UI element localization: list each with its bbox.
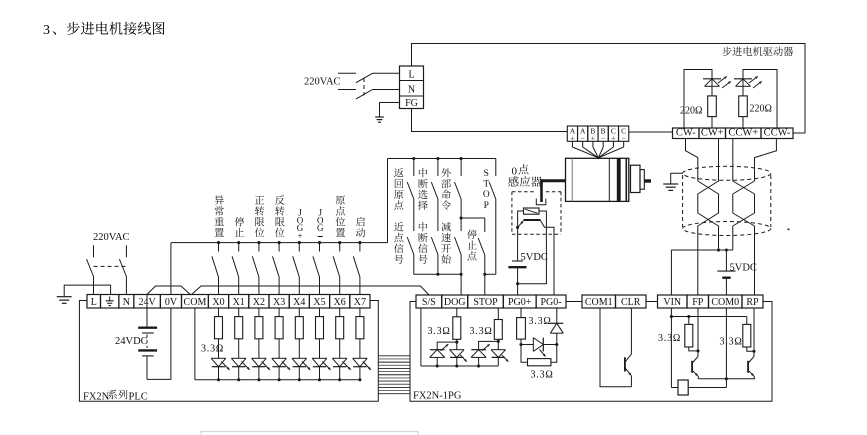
wire R-FP bottom to node	[689, 347, 698, 351]
switch S2b lever	[119, 259, 126, 277]
switch X3 input	[278, 243, 280, 252]
switch 返回原点	[413, 159, 415, 177]
wire to DOG LED1	[437, 342, 457, 350]
switch X5 input	[319, 243, 321, 252]
svg-text:3.3Ω: 3.3Ω	[529, 316, 552, 327]
motor shaft housing right	[631, 165, 641, 192]
wire switch to X2	[258, 277, 260, 295]
battery 24VDC	[146, 295, 148, 327]
label 中断信号	[419, 222, 427, 231]
wire shield to ground	[671, 173, 683, 184]
svg-text:RP: RP	[746, 297, 759, 308]
label 中断选择	[419, 168, 427, 177]
svg-text:+: +	[297, 231, 302, 241]
label 启动	[356, 217, 365, 226]
svg-text:PLC: PLC	[129, 392, 148, 403]
svg-text:L: L	[408, 70, 414, 81]
LED X4	[292, 357, 307, 359]
svg-text:CCW-: CCW-	[764, 127, 791, 138]
switch S2a lever	[87, 259, 94, 277]
wire LED X3 to common	[278, 367, 280, 380]
switch gang dashed link left	[94, 265, 127, 267]
wire diode to node	[556, 333, 558, 344]
motor shaft left	[542, 179, 565, 182]
wire L/N/FG box top to driver	[412, 44, 806, 134]
svg-text:X3: X3	[273, 297, 285, 308]
switch X4 input	[298, 243, 300, 252]
LED X6	[332, 357, 347, 359]
svg-text:24V: 24V	[139, 297, 157, 308]
connector fan wires to motor	[571, 141, 573, 147]
wire LED X1 to common	[238, 367, 240, 380]
node selector top	[436, 157, 439, 160]
svg-text:DOG: DOG	[444, 297, 466, 308]
label 原点位置	[336, 195, 345, 204]
svg-text:G: G	[317, 223, 324, 233]
svg-text:COM1: COM1	[585, 297, 613, 308]
wire CLR down	[630, 308, 632, 354]
wire resistor to LED X0	[218, 339, 220, 359]
wire X5 to resistor	[319, 308, 321, 317]
wire R-RP bottom to node	[747, 347, 754, 351]
wire LED right to battery minus	[518, 211, 547, 284]
wire CCW- to cable	[755, 139, 777, 182]
LED X7	[353, 357, 368, 359]
terminal strip S/S DOG STOP PG0+ PG0-	[416, 295, 442, 308]
wire selector left edge	[387, 159, 389, 243]
wire R2 to CCW+	[742, 117, 744, 128]
svg-text:3.3Ω: 3.3Ω	[428, 326, 451, 337]
switch S1a lever	[356, 73, 373, 82]
wire switch to X3	[278, 277, 280, 295]
wire switch to X0	[218, 277, 220, 295]
node FP	[696, 349, 699, 352]
LED X1	[231, 357, 246, 359]
switch S2a stub	[93, 245, 95, 257]
switch X0 input	[218, 243, 220, 252]
svg-text:3: 3	[43, 23, 50, 38]
wire strip link PG0- to COM1	[566, 301, 582, 303]
svg-text:X4: X4	[293, 297, 305, 308]
wire VIN drop	[670, 250, 672, 295]
wire X1 to resistor	[238, 308, 240, 317]
switch STOP external	[495, 159, 497, 177]
wire X7 to resistor	[359, 308, 361, 317]
transistor FP	[691, 361, 693, 373]
wire resistor to LED X2	[258, 339, 260, 359]
FX2N-1PG enclosure box	[410, 302, 772, 402]
wire switch to X4	[298, 277, 300, 295]
bottom partial box	[201, 432, 418, 435]
switch S1b feed stub	[338, 89, 356, 91]
svg-text:N: N	[123, 297, 130, 308]
ground FG	[375, 116, 384, 118]
switch 外部命令	[460, 159, 462, 177]
battery 5VDC right	[725, 250, 727, 271]
svg-text:−: −	[622, 134, 626, 143]
node bus X3	[278, 241, 281, 244]
node bus X6	[338, 241, 341, 244]
wire 1PG input common bus	[421, 365, 498, 367]
wire earth cell to ground	[64, 285, 110, 297]
svg-text:+: +	[591, 134, 595, 143]
svg-text:0V: 0V	[165, 297, 178, 308]
svg-text:CW+: CW+	[701, 127, 724, 138]
node RP	[752, 350, 755, 353]
switch X6 input	[339, 243, 341, 252]
svg-text:5VDC: 5VDC	[730, 263, 757, 274]
wire switch to X7	[359, 277, 361, 295]
sensor phototransistor emitter to PG0-	[541, 221, 554, 295]
wire battery to 0V	[147, 308, 171, 379]
wire X4 to resistor	[298, 308, 300, 317]
LED X2	[252, 357, 267, 359]
wire FG box bottom to connector	[412, 109, 568, 132]
ribbon cable PLC to 1PG	[378, 355, 410, 357]
svg-text:COM: COM	[184, 297, 207, 308]
svg-text:3.3Ω: 3.3Ω	[720, 337, 743, 348]
svg-text:P: P	[484, 201, 489, 211]
switch S1a feed stub	[338, 72, 356, 74]
wire VIN down	[670, 308, 672, 388]
svg-text:T: T	[483, 180, 489, 190]
svg-text:X7: X7	[354, 297, 366, 308]
wire emitter bus FP-RP	[698, 378, 755, 380]
ground shield	[663, 183, 678, 185]
cable shield dashed ellipse top	[683, 166, 771, 180]
svg-text:FP: FP	[692, 297, 704, 308]
svg-text:0: 0	[512, 166, 518, 178]
wire jumper to COM0	[688, 387, 726, 389]
svg-text:COM0: COM0	[711, 297, 739, 308]
node bus X7	[358, 241, 361, 244]
sensor LED emitter box	[524, 208, 540, 214]
wire S2b to N	[125, 277, 127, 295]
resistor 220ohm R1	[708, 96, 717, 117]
node rail CW+	[717, 248, 720, 251]
terminal box L/N/FG	[400, 66, 424, 109]
switch 减速开始	[455, 237, 462, 255]
wire LED X4 to common	[298, 367, 300, 380]
terminal strip PLC L..X7	[87, 295, 101, 309]
wire S1a to L	[373, 72, 400, 74]
svg-text:VIN: VIN	[663, 297, 681, 308]
stray mark	[787, 228, 789, 230]
resistor 3.3ohm PG0 parallel	[521, 345, 528, 363]
svg-text:−: −	[581, 134, 585, 143]
wire S2a to L	[93, 277, 95, 295]
LED D2	[734, 78, 752, 80]
svg-text:N: N	[408, 85, 415, 96]
svg-text:+: +	[570, 134, 574, 143]
transistor RP	[747, 361, 749, 373]
svg-text:3.3Ω: 3.3Ω	[658, 333, 681, 344]
switch S2b stub	[125, 245, 127, 257]
node sensor left	[516, 226, 519, 229]
transistor CLR	[624, 357, 626, 371]
switch 停止点	[484, 218, 486, 232]
node DOG LED pair	[456, 339, 458, 342]
label 正转限位	[255, 196, 264, 205]
terminal strip COM1 CLR	[582, 295, 616, 308]
LED D1 light arrows	[718, 76, 727, 83]
wire S1b to N	[373, 89, 400, 91]
node branch 停止点	[460, 216, 463, 219]
svg-text:220VAC: 220VAC	[304, 77, 341, 88]
resistor 3.3ohm FP pullup	[685, 324, 693, 347]
wire resistor to LED X1	[238, 339, 240, 359]
cable shield dashed sides	[682, 175, 684, 227]
wire switch to X6	[339, 277, 341, 295]
wire resistor to node	[520, 339, 522, 344]
node bus X1	[237, 241, 240, 244]
svg-text:FG: FG	[405, 98, 418, 109]
node STOP LED pair	[497, 340, 500, 343]
resistor 3.3ohm X5	[316, 317, 324, 339]
switch X7 input	[359, 243, 361, 252]
diode PG0-	[550, 322, 563, 324]
switch X2 input	[258, 243, 260, 252]
wire X3 to resistor	[278, 308, 280, 317]
wire STOP to resistor	[497, 308, 499, 320]
node battery minus	[516, 282, 519, 285]
wire pair exit to RP	[754, 226, 756, 295]
resistor 3.3ohm X6	[336, 317, 344, 339]
wire selector bottom to DOG	[414, 273, 461, 275]
wire FG to ground	[380, 103, 400, 118]
wire VIN to jumper	[671, 387, 678, 389]
LED STOP up	[471, 349, 486, 351]
wire S/S down	[420, 308, 422, 366]
svg-text:S: S	[484, 169, 489, 179]
wire LED X0 to common	[218, 367, 220, 380]
wire pair exit to FP	[697, 226, 699, 295]
LED D2 light arrows	[749, 76, 758, 83]
wire resistor to LED X6	[339, 339, 341, 359]
sensor phototransistor base bar	[523, 219, 540, 221]
switch 近点信号	[407, 237, 414, 255]
wire to R-RP	[746, 317, 748, 325]
svg-text:FX2N: FX2N	[83, 392, 110, 403]
wire connector to CW- strip	[629, 131, 673, 133]
sensor vane	[540, 179, 543, 202]
wire switch to X5	[319, 277, 321, 295]
PLC enclosure box	[79, 301, 378, 402]
wire CCW+ to cable	[732, 139, 734, 182]
node selector top	[460, 157, 463, 160]
wire X2 to resistor	[258, 308, 260, 317]
svg-text:3.3Ω: 3.3Ω	[531, 370, 554, 381]
switch S1b lever	[356, 90, 373, 99]
node R-FP top	[687, 315, 690, 318]
wire X0 to resistor	[218, 308, 220, 317]
wire LED X5 to common	[319, 367, 321, 380]
LED PG0 horizontal	[521, 344, 533, 346]
node bus X2	[257, 241, 260, 244]
wire pair exit CW+ to 5V rail	[718, 226, 720, 250]
sensor phototransistor collector diagonal	[518, 221, 524, 227]
stepper motor body	[566, 158, 629, 201]
LED STOP down	[497, 341, 499, 349]
twisted pair CW	[698, 181, 719, 194]
resistor 3.3ohm STOP	[494, 320, 502, 340]
wire LED X6 to common	[339, 367, 341, 380]
wire CW- to cable	[686, 139, 698, 182]
wire strip link CLR to VIN	[646, 301, 658, 303]
resistor 3.3ohm PG0	[517, 318, 526, 340]
wire LED left	[518, 211, 524, 227]
node rail battery	[725, 248, 728, 251]
wire input common bus	[171, 242, 388, 244]
twisted pair CCW	[733, 181, 755, 194]
svg-text:S/S: S/S	[422, 297, 436, 308]
label 返回原点	[394, 168, 403, 177]
svg-text:O: O	[483, 190, 490, 200]
label 异常重置	[215, 195, 224, 204]
switch X1 input	[238, 243, 240, 252]
svg-text:PG0-: PG0-	[540, 297, 561, 308]
svg-text:STOP: STOP	[473, 297, 498, 308]
LED DOG down	[456, 342, 458, 350]
wire PLC common bus bottom	[195, 379, 360, 381]
wire COM0 down	[725, 308, 727, 388]
wire CCW branch up	[743, 70, 777, 129]
ground main	[57, 296, 72, 298]
label 近点信号	[394, 222, 403, 231]
wire X6 to resistor	[339, 308, 341, 317]
resistor 3.3ohm X2	[255, 317, 263, 339]
wire resistor to LED X4	[298, 339, 300, 359]
svg-text:X5: X5	[313, 297, 325, 308]
sensor dashed box	[512, 191, 536, 193]
wire resistor to LED X5	[319, 339, 321, 359]
terminal strip CW-/CW+/CCW+/CCW-	[673, 128, 700, 139]
resistor 3.3ohm X7	[356, 317, 364, 339]
resistor 220ohm R2	[739, 96, 748, 117]
wire PG0- down	[556, 308, 558, 323]
svg-text:X0: X0	[212, 297, 224, 308]
svg-text:+: +	[611, 134, 615, 143]
label 停止	[235, 217, 245, 226]
resistor 3.3ohm X0	[215, 317, 223, 339]
svg-text:FX2N-1PG: FX2N-1PG	[413, 391, 462, 402]
wire COM1 down	[600, 308, 631, 387]
switch 中断选择	[437, 159, 439, 177]
wire DOG to resistor	[456, 308, 458, 317]
node VIN pullup rail	[670, 315, 673, 318]
jumper box	[678, 380, 688, 395]
resistor 3.3ohm X1	[235, 317, 243, 339]
svg-text:3.3Ω: 3.3Ω	[470, 326, 493, 337]
svg-text:3.3Ω: 3.3Ω	[201, 344, 224, 355]
resistor 3.3ohm X4	[295, 317, 303, 339]
switch 中断信号	[431, 237, 438, 255]
earth symbol in strip cell	[109, 297, 111, 301]
svg-text:X1: X1	[233, 297, 245, 308]
wire 24V hop to COM and S/S	[147, 286, 191, 295]
wire to R-FP	[688, 317, 690, 325]
motor shaft right stub	[644, 179, 651, 182]
svg-text:L: L	[91, 297, 97, 308]
LED D1	[711, 79, 713, 96]
wire to STOP LED1	[479, 339, 499, 349]
switch gang dashed link	[363, 78, 365, 96]
wire COM riser down	[194, 308, 196, 380]
LED X5	[312, 357, 327, 359]
label 外部命令	[441, 168, 450, 177]
wire FP down	[697, 308, 699, 351]
node bus X5	[318, 241, 321, 244]
terminal strip VIN FP COM0 RP	[658, 295, 688, 308]
LED X0	[211, 357, 226, 359]
label 停止点	[467, 229, 477, 238]
sensor slot bracket	[536, 199, 546, 205]
node selector top	[412, 157, 415, 160]
label 步进电机驱动器	[722, 47, 731, 56]
svg-text:CLR: CLR	[621, 297, 641, 308]
wire 0V riser	[170, 243, 172, 295]
node bus X0	[217, 241, 220, 244]
battery 5VDC left	[517, 227, 519, 261]
wire pair exit CCW+ to 5V rail	[732, 226, 734, 250]
svg-text:220Ω: 220Ω	[750, 104, 772, 115]
motor connector strip A+/A-/B+/B-/C+/C-	[567, 126, 577, 141]
svg-text:X6: X6	[334, 297, 346, 308]
wire LED X2 to common	[258, 367, 260, 380]
wire CW- branch up	[684, 70, 712, 129]
wire PG0+ to resistor	[520, 308, 522, 318]
wire LED X7 to common	[359, 367, 361, 380]
svg-text:220VAC: 220VAC	[93, 232, 130, 243]
label 反转限位	[275, 195, 285, 204]
node bus X4	[298, 241, 301, 244]
wire branch to 停止点	[461, 217, 485, 219]
wire VIN pullup rail	[671, 316, 746, 318]
wire 5V rail	[671, 249, 732, 251]
wire R1 to CW+	[711, 117, 713, 128]
resistor 3.3ohm X3	[275, 317, 283, 339]
svg-text:CCW+: CCW+	[728, 127, 758, 138]
wire resistor to LED X7	[359, 339, 361, 359]
resistor 3.3ohm DOG	[453, 317, 461, 340]
svg-text:CW-: CW-	[676, 127, 696, 138]
LED X3	[272, 357, 287, 359]
svg-text:24VDC: 24VDC	[115, 336, 148, 347]
wire RP down	[753, 308, 755, 351]
node emitter COM0	[725, 377, 728, 380]
svg-text:PG0+: PG0+	[508, 297, 532, 308]
wire selector top bus	[388, 158, 496, 160]
label 减速开始	[441, 222, 450, 231]
wire resistor to LED X3	[278, 339, 280, 359]
wire CW+ to cable	[718, 139, 720, 182]
resistor 3.3ohm RP pullup	[743, 324, 751, 347]
LED DOG up	[430, 349, 445, 351]
svg-text:220Ω: 220Ω	[680, 106, 702, 117]
cable shield dashed ellipse bottom	[683, 222, 771, 236]
svg-text:X2: X2	[253, 297, 265, 308]
wire switch to X1	[238, 277, 240, 295]
wire selector bottom to STOP terminal	[485, 273, 496, 275]
svg-text:−: −	[601, 134, 605, 143]
svg-text:5VDC: 5VDC	[521, 252, 548, 263]
